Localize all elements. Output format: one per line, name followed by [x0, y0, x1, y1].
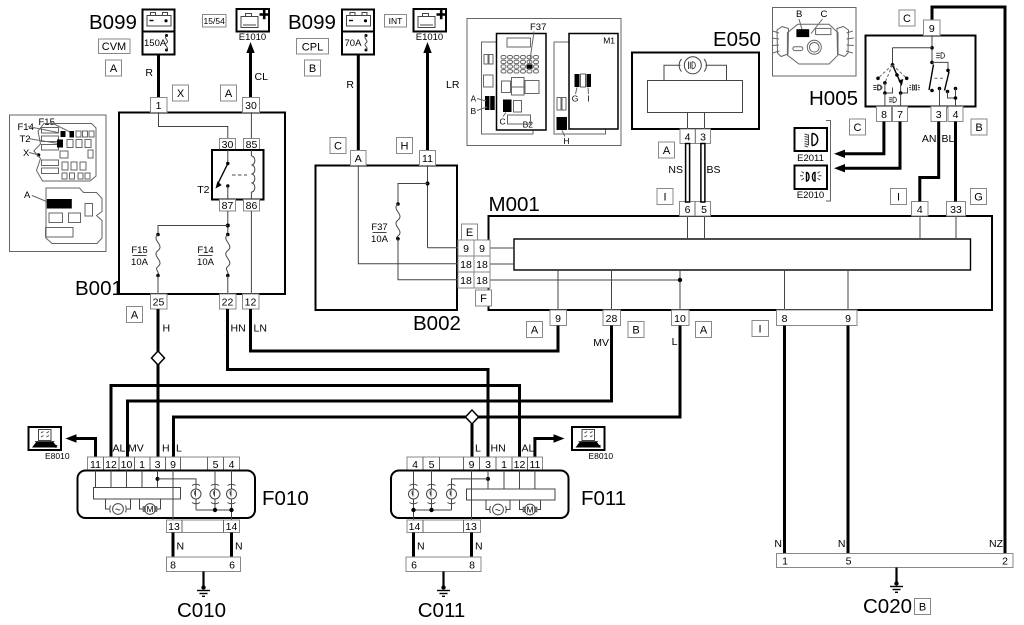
F011 lamp 1	[409, 471, 419, 521]
wire inside B001 from pin1 to relay 30	[159, 113, 228, 139]
splice diamond on wire H	[152, 351, 165, 365]
svg-text:A: A	[131, 310, 139, 322]
svg-text:18: 18	[476, 259, 488, 271]
svg-text:5: 5	[429, 459, 435, 471]
svg-text:B099: B099	[288, 11, 336, 34]
F010 lamp 1	[191, 484, 201, 510]
svg-text:I: I	[663, 192, 666, 204]
svg-text:A: A	[531, 325, 539, 337]
connector letter box G (BL wire)	[971, 189, 987, 205]
svg-text:E8010: E8010	[45, 451, 70, 461]
label box 15/54	[203, 15, 227, 28]
svg-text:6: 6	[685, 204, 691, 216]
fuse F14 10A	[197, 233, 230, 294]
wire inside B002 pin11 to rows	[398, 166, 458, 248]
wire arrow F011 pin11 to E8010	[535, 434, 565, 457]
ground symbol C010	[177, 572, 226, 623]
fuse F37 10A	[371, 202, 458, 280]
svg-text:1: 1	[156, 100, 162, 112]
svg-text:10A: 10A	[131, 257, 149, 268]
svg-text:H: H	[163, 323, 171, 335]
svg-text:AL: AL	[522, 443, 535, 455]
node E050 body	[632, 28, 761, 129]
svg-text:A: A	[355, 153, 362, 165]
svg-text:11: 11	[422, 153, 433, 165]
svg-text:6: 6	[229, 560, 235, 572]
diagnostic socket E8010 (left)	[29, 427, 70, 461]
node H005 body	[866, 36, 976, 107]
M001 inner module rectangle	[514, 239, 971, 270]
M001 left pins 9/18/18 double boxes	[458, 240, 490, 288]
svg-text:R: R	[145, 67, 153, 79]
H005 pin 7	[893, 107, 908, 122]
fuse F37 highlighted in inset	[527, 64, 533, 68]
svg-text:14: 14	[409, 521, 421, 533]
svg-text:T2: T2	[197, 184, 209, 196]
wire arrow F010 pin11 to E8010	[66, 434, 96, 457]
svg-text:F15: F15	[39, 117, 55, 128]
ground point E2010 position lights	[795, 166, 828, 202]
svg-text:10: 10	[121, 459, 133, 471]
connector letter box A (E050)	[659, 142, 675, 158]
connector letter box I (C020 wires)	[752, 321, 769, 337]
svg-text:18: 18	[460, 275, 472, 287]
steering column inset	[772, 8, 856, 77]
wire H from B001 pin25 to F010 pin3	[158, 309, 170, 457]
svg-text:N: N	[235, 541, 243, 553]
wire AN H005 pin3 to M001 pin4	[920, 122, 939, 202]
pin 25 of B001	[151, 294, 168, 309]
battery B099 left symbol with 150A fuse	[143, 10, 175, 55]
svg-text:33: 33	[950, 204, 962, 216]
node B002 body	[316, 166, 461, 336]
connector letter box B (MV wire)	[628, 322, 644, 338]
svg-text:A: A	[24, 190, 31, 201]
connector letter box C (H005 pins 8 7)	[850, 119, 866, 135]
relay T2 pin 85	[244, 139, 260, 152]
wire CL arrow to E1010	[246, 42, 268, 98]
headlamp F011 body	[391, 471, 626, 519]
svg-text:4: 4	[412, 459, 418, 471]
svg-text:150A: 150A	[144, 38, 167, 49]
svg-text:25: 25	[153, 297, 165, 309]
svg-text:M: M	[146, 504, 153, 514]
svg-text:B002: B002	[413, 312, 461, 335]
label box INT	[385, 15, 407, 28]
svg-text:C010: C010	[177, 599, 226, 622]
svg-text:MV: MV	[128, 443, 144, 455]
svg-text:E2011: E2011	[797, 153, 824, 164]
svg-text:11: 11	[90, 459, 101, 471]
svg-text:8: 8	[469, 560, 475, 572]
H005 internal light switch	[893, 36, 958, 107]
bracket joining E2011 E2010	[826, 121, 831, 202]
svg-text:I: I	[897, 192, 900, 204]
wire LN from B001 pin12 to M001 pin9	[251, 309, 559, 351]
svg-text:E1010: E1010	[239, 32, 266, 43]
ground symbol C011	[418, 572, 466, 623]
node B001 body	[75, 113, 285, 301]
svg-text:E8010: E8010	[589, 451, 614, 461]
M001 top pin 4	[912, 202, 929, 217]
svg-text:14: 14	[226, 521, 238, 533]
svg-text:3: 3	[700, 132, 706, 144]
svg-text:R: R	[346, 79, 354, 91]
H005 pin 3	[931, 107, 947, 122]
svg-text:I: I	[758, 324, 761, 336]
svg-text:12: 12	[105, 459, 117, 471]
wire HN from B001 pin22 to F011 pin3	[228, 309, 489, 457]
E050 internal sensor symbol	[648, 57, 743, 129]
connector code box CVM	[99, 39, 131, 54]
svg-text:9: 9	[170, 459, 176, 471]
svg-text:1: 1	[501, 459, 507, 471]
connector letter box B (H005 pins 3 4)	[971, 119, 987, 135]
svg-text:B: B	[471, 106, 477, 116]
svg-text:9: 9	[929, 23, 935, 35]
F011 bottom pin row 14 13	[407, 520, 481, 533]
ground connector C010	[167, 557, 241, 572]
svg-text:H: H	[563, 136, 569, 146]
relay T2 pin 86	[244, 200, 260, 213]
svg-text:9: 9	[469, 459, 475, 471]
svg-text:A: A	[700, 325, 708, 337]
wire arrow H005 pin8 to E2011	[834, 122, 884, 159]
svg-text:C: C	[334, 141, 342, 153]
svg-text:C: C	[500, 117, 506, 127]
fusebox location inset (left)	[10, 115, 107, 252]
svg-text:30: 30	[245, 100, 257, 112]
F011 lamp 2	[427, 471, 437, 511]
svg-text:LR: LR	[446, 79, 460, 91]
svg-text:BL: BL	[942, 133, 955, 145]
svg-text:N: N	[417, 541, 425, 553]
svg-text:L: L	[176, 443, 182, 455]
wire MV from M001 pin28 to F010 pin10	[128, 326, 612, 458]
F010 wire labels	[113, 443, 183, 455]
F010 motor M	[140, 499, 161, 514]
connector letter box B (C020)	[915, 599, 931, 615]
H005 left lamp icon	[873, 85, 882, 91]
H005 internal turn/flash switch	[876, 63, 908, 106]
F011 levelling motor	[486, 500, 510, 515]
svg-text:B001: B001	[75, 277, 123, 300]
F011 lamp common wire	[411, 508, 451, 512]
pin 12 of B001	[243, 294, 260, 309]
svg-text:T2: T2	[20, 134, 31, 145]
svg-text:AL: AL	[113, 443, 126, 455]
svg-text:8: 8	[881, 109, 887, 121]
svg-text:HN: HN	[491, 443, 506, 455]
F010 bottom pin row 13 14	[167, 520, 240, 533]
svg-text:LN: LN	[254, 323, 267, 335]
svg-text:11: 11	[529, 459, 540, 471]
svg-text:12: 12	[514, 459, 526, 471]
svg-text:N: N	[475, 541, 483, 553]
svg-text:X: X	[177, 88, 185, 100]
battery B099 middle symbol with 70A fuse	[342, 10, 374, 55]
F011 top pin row 4 5 9 3 1 12 11	[407, 457, 543, 471]
svg-text:10: 10	[674, 313, 686, 325]
wire LR arrow to E1010 middle	[423, 42, 460, 151]
svg-text:F011: F011	[581, 487, 626, 510]
wire N F011 pin13 to C011	[472, 533, 483, 558]
connector letter box A below B001	[127, 307, 143, 323]
svg-text:7: 7	[897, 109, 903, 121]
wire N F010 pin13 to C010	[173, 533, 184, 558]
svg-text:B: B	[975, 122, 982, 134]
svg-text:N: N	[177, 541, 185, 553]
wire AL between F010 pin12 and F011 pin12	[111, 386, 520, 458]
svg-text:BS: BS	[707, 164, 721, 176]
svg-text:13: 13	[465, 521, 477, 533]
svg-text:MV: MV	[593, 337, 609, 349]
svg-text:87: 87	[222, 200, 234, 212]
headlamp F010 body	[78, 471, 309, 519]
svg-text:18: 18	[476, 275, 488, 287]
node M001 body	[489, 193, 993, 310]
svg-text:CPL: CPL	[302, 42, 323, 54]
wire NS (shielded pair)	[668, 144, 689, 203]
diagnostic socket E8010 (right)	[572, 427, 613, 461]
svg-text:F14: F14	[197, 245, 213, 256]
H005 pin 4	[948, 107, 963, 122]
wire R from B099 middle to B002 pin A	[346, 55, 358, 151]
connector letter box A (pin30 wire)	[221, 85, 237, 101]
connector letter box X	[173, 85, 189, 101]
svg-text:8: 8	[782, 313, 788, 325]
H005 pin 9 box	[924, 20, 941, 36]
svg-text:E2010: E2010	[797, 190, 824, 201]
fusebox location inset (middle)	[467, 19, 621, 147]
H005 fog lamp icon	[909, 85, 920, 90]
M001 bottom pin 28	[603, 310, 621, 326]
svg-text:B: B	[796, 9, 802, 20]
svg-text:B: B	[919, 602, 926, 614]
svg-text:70A: 70A	[345, 38, 363, 49]
svg-text:A: A	[471, 94, 477, 104]
H005 pin 8	[877, 107, 892, 122]
svg-text:22: 22	[222, 297, 234, 309]
svg-text:A: A	[110, 63, 118, 75]
splice diamond on wire L	[466, 410, 479, 424]
svg-text:H: H	[401, 141, 409, 153]
svg-text:4: 4	[229, 459, 235, 471]
relay T2 box	[197, 150, 263, 200]
F010 levelling motor	[106, 499, 131, 514]
wire R from B099 to B001 pin 1	[145, 55, 158, 98]
svg-text:CVM: CVM	[102, 41, 126, 53]
wire inside B001 from pin30 to relay 85	[250, 113, 252, 139]
svg-text:M1: M1	[603, 36, 615, 46]
svg-text:CL: CL	[255, 71, 269, 83]
svg-text:N: N	[838, 538, 846, 550]
M001 bottom pins 8 9 wide box	[777, 310, 858, 326]
svg-text:C: C	[821, 9, 828, 20]
svg-text:E: E	[466, 227, 473, 239]
relay T2 pin 30	[220, 139, 236, 152]
svg-text:G: G	[572, 94, 579, 104]
svg-text:9: 9	[463, 243, 469, 255]
pin 1 of B001	[151, 98, 168, 113]
E050 pin 4 3 box	[680, 129, 711, 144]
svg-text:15/54: 15/54	[204, 16, 226, 26]
svg-text:9: 9	[845, 313, 851, 325]
M001 top pin 33	[947, 202, 966, 217]
wire N from M001 pin8 to C020 pin1	[774, 326, 784, 554]
connector letter box I (E050 wires)	[657, 189, 673, 205]
ground symbol C020	[863, 568, 912, 619]
ground connector C020	[777, 554, 1014, 568]
svg-text:AN: AN	[922, 133, 937, 145]
pin 11 of B002	[420, 151, 436, 166]
svg-text:3: 3	[485, 459, 491, 471]
pin 30 of B001	[243, 98, 260, 113]
svg-text:5: 5	[846, 556, 852, 568]
battery B099 (middle) label	[288, 11, 336, 34]
pin 22 of B001	[220, 294, 237, 309]
svg-text:C011: C011	[418, 599, 466, 622]
wire arrow H005 pin7 to E2010	[834, 122, 900, 173]
connector letter box I (AN wire)	[891, 189, 907, 205]
svg-text:B: B	[632, 325, 639, 337]
svg-text:F010: F010	[262, 487, 309, 510]
svg-text:H005: H005	[809, 87, 858, 110]
connector letter box B	[305, 60, 321, 76]
pin A of B002	[351, 151, 367, 166]
svg-text:5: 5	[701, 204, 707, 216]
F010 lamp 2	[210, 471, 220, 511]
M001 internal wires	[490, 216, 956, 310]
svg-text:X: X	[23, 148, 30, 159]
wire relay 87 to fuses junction	[158, 211, 230, 234]
svg-text:9: 9	[479, 243, 485, 255]
svg-text:13: 13	[168, 521, 180, 533]
svg-text:12: 12	[245, 297, 257, 309]
wire L branch to F011 pin9	[471, 424, 474, 457]
svg-text:86: 86	[246, 200, 258, 212]
svg-text:E1010: E1010	[416, 32, 443, 43]
svg-text:1: 1	[139, 459, 145, 471]
connector letter box C (B002 pin A)	[330, 138, 346, 154]
F011 motor M	[520, 500, 541, 515]
svg-text:10A: 10A	[197, 257, 215, 268]
svg-text:M: M	[526, 505, 533, 515]
F010 top pin row 11 12 10 1 3 9 5 4	[88, 457, 240, 471]
connector letter box H (B002 pin 11)	[397, 138, 413, 154]
node H005 label	[809, 87, 858, 110]
svg-text:F15: F15	[131, 245, 147, 256]
svg-text:9: 9	[555, 313, 561, 325]
H005 low beam icon	[889, 97, 896, 103]
wire L from M001 pin10 to F010 pin9	[174, 326, 681, 458]
connector letter box F	[476, 290, 492, 306]
svg-text:NS: NS	[668, 164, 683, 176]
relay T2 pin 87	[220, 200, 236, 213]
relay T2 contact and coil	[216, 150, 255, 200]
fuse F15 10A	[131, 233, 160, 294]
svg-text:G: G	[974, 192, 983, 204]
svg-text:2: 2	[1002, 556, 1008, 568]
H005 high beam icon	[936, 53, 944, 59]
ground point E2011 low beam	[795, 128, 828, 164]
svg-text:I: I	[587, 94, 589, 104]
svg-text:E050: E050	[713, 28, 761, 51]
connector letter box A	[106, 60, 122, 76]
battery B099 (left) label	[89, 11, 137, 34]
wire NZ label at C020 pin2	[989, 538, 1004, 550]
svg-text:4: 4	[917, 204, 923, 216]
F011 lamp 3	[447, 484, 457, 510]
svg-text:NZ: NZ	[989, 538, 1004, 550]
M001 bottom pin 9	[550, 310, 567, 326]
svg-text:A: A	[225, 88, 233, 100]
svg-text:28: 28	[606, 313, 618, 325]
svg-text:18: 18	[460, 259, 472, 271]
svg-text:B099: B099	[89, 11, 137, 34]
svg-text:10A: 10A	[371, 234, 389, 245]
svg-text:M001: M001	[489, 193, 540, 216]
wire relay 86 to pin 12	[250, 211, 252, 294]
connector code box CPL	[297, 39, 329, 55]
connector letter box A (LN wire)	[527, 322, 543, 338]
svg-text:A: A	[663, 145, 671, 157]
svg-text:C: C	[903, 13, 911, 25]
svg-text:F37: F37	[530, 22, 546, 33]
svg-text:F37: F37	[371, 222, 387, 233]
F011 internal wiring	[452, 471, 556, 521]
svg-text:3: 3	[936, 109, 942, 121]
wire N F010 pin14 to C010	[232, 533, 243, 558]
svg-text:L: L	[672, 336, 678, 348]
wire inside B002 pin A to row 18	[358, 166, 458, 264]
ground connector C011	[406, 557, 481, 572]
connector letter box C (H005 pin9)	[899, 10, 915, 26]
wire N F011 pin14 to C011	[414, 533, 425, 558]
svg-text:H: H	[162, 443, 170, 455]
F010 internal wiring	[94, 471, 197, 521]
svg-text:L: L	[475, 443, 481, 455]
svg-text:B: B	[309, 63, 316, 75]
ground point E1010 (left)	[237, 9, 270, 43]
wire H005 pin9 to C020 pin2 (top right route)	[932, 7, 1005, 554]
ground point E1010 (middle)	[414, 9, 447, 43]
F010 lamp 3	[227, 471, 237, 521]
svg-text:C020: C020	[863, 595, 912, 618]
svg-text:3: 3	[155, 459, 161, 471]
wire N from M001 pin9 to C020 pin5	[838, 326, 848, 554]
svg-text:4: 4	[685, 132, 691, 144]
svg-text:C: C	[854, 122, 862, 134]
svg-text:INT: INT	[389, 16, 403, 26]
wire BL H005 pin4 to M001 pin33	[942, 122, 956, 202]
M001 top pin 6 5 box	[680, 202, 711, 217]
svg-text:N: N	[774, 538, 782, 550]
svg-text:1: 1	[782, 556, 788, 568]
F010 lamp common wire	[196, 508, 234, 512]
svg-text:4: 4	[953, 109, 959, 121]
svg-text:HN: HN	[231, 323, 246, 335]
svg-text:F: F	[480, 293, 487, 305]
M001 bottom pin 10	[672, 310, 690, 326]
connector letter box E	[462, 224, 478, 240]
connector letter box A (L wire)	[696, 322, 712, 338]
F011 wire labels	[475, 443, 535, 455]
wire BS (shielded pair)	[701, 144, 721, 203]
svg-text:6: 6	[411, 560, 417, 572]
svg-text:8: 8	[170, 560, 176, 572]
svg-text:5: 5	[213, 459, 219, 471]
